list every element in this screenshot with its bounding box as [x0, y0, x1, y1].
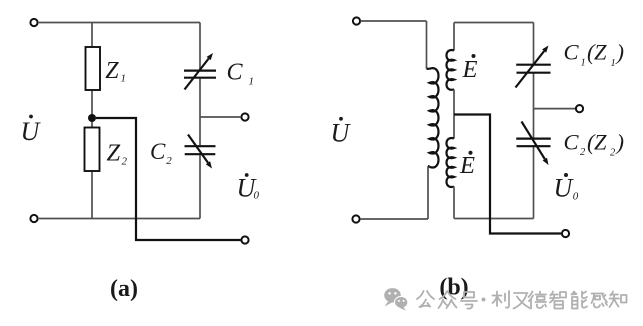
svg-text:Z: Z	[107, 140, 121, 167]
svg-text:1: 1	[121, 73, 127, 85]
svg-text:2: 2	[122, 156, 128, 168]
svg-text:U: U	[21, 117, 42, 146]
svg-text:C: C	[564, 40, 580, 65]
svg-text:U: U	[554, 174, 575, 203]
svg-text:(a): (a)	[110, 276, 138, 302]
svg-text:2: 2	[610, 148, 616, 159]
svg-text:2: 2	[580, 147, 586, 158]
svg-text:1: 1	[611, 58, 616, 69]
svg-text:0: 0	[254, 190, 260, 202]
svg-text:Z: Z	[105, 58, 119, 84]
svg-text:1: 1	[249, 76, 255, 88]
svg-text:C: C	[564, 130, 580, 155]
svg-text:C: C	[150, 139, 166, 164]
svg-text:Z: Z	[594, 40, 607, 65]
svg-text:): )	[615, 40, 625, 65]
svg-text:Z: Z	[594, 130, 607, 155]
svg-text:0: 0	[573, 191, 579, 203]
svg-text:U: U	[331, 119, 352, 148]
svg-text:1: 1	[581, 58, 586, 69]
svg-text:): )	[615, 130, 625, 155]
svg-text:2: 2	[166, 155, 172, 167]
svg-text:E: E	[462, 56, 478, 83]
svg-text:E: E	[459, 152, 475, 179]
svg-text:C: C	[227, 60, 244, 86]
